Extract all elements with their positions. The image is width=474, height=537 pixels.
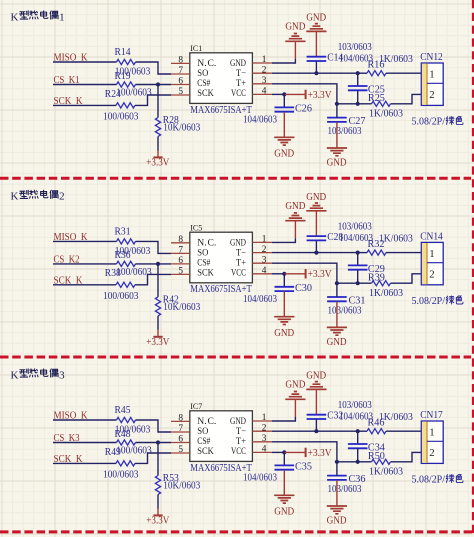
svg-text:+3.3V: +3.3V bbox=[146, 337, 170, 348]
capacitor C26 bbox=[275, 107, 295, 111]
svg-text:IC1: IC1 bbox=[190, 44, 202, 53]
svg-text:1K/0603: 1K/0603 bbox=[369, 467, 403, 478]
wire R45 to IC pin7 bbox=[136, 420, 172, 432]
wire R39 to connector pin2 bbox=[391, 274, 422, 283]
svg-text:5: 5 bbox=[178, 87, 183, 97]
capacitor C27 bbox=[327, 118, 347, 122]
capacitor C29 bbox=[348, 265, 368, 269]
IC IC5 pin 4 stub (VCC) bbox=[252, 273, 272, 275]
svg-text:GND: GND bbox=[327, 337, 347, 348]
svg-text:GND: GND bbox=[306, 370, 326, 381]
svg-text:T+: T+ bbox=[236, 258, 246, 268]
wire pin2 (T-) net bbox=[272, 72, 358, 74]
svg-text:1K/0603: 1K/0603 bbox=[369, 288, 403, 299]
ground stub to C32 top bbox=[315, 389, 317, 414]
svg-text:1: 1 bbox=[429, 248, 434, 260]
svg-text:R48: R48 bbox=[115, 429, 131, 440]
svg-text:CN17: CN17 bbox=[420, 410, 443, 421]
svg-text:1: 1 bbox=[429, 69, 434, 81]
ground symbol (pin1 net) bbox=[285, 34, 305, 42]
svg-text:R19: R19 bbox=[115, 71, 131, 82]
junction pin2 net / C29 bbox=[356, 251, 360, 255]
section separator dashed line 1 bbox=[0, 177, 471, 180]
svg-text:100/0603: 100/0603 bbox=[116, 87, 152, 98]
resistor R50 bbox=[372, 459, 391, 464]
svg-text:3: 3 bbox=[262, 255, 267, 265]
svg-text:4: 4 bbox=[262, 87, 267, 97]
wire VCC junction down to C30 bbox=[283, 274, 285, 287]
svg-text:1K/0603: 1K/0603 bbox=[379, 412, 413, 423]
IC IC7 pin 5 stub (SCK) bbox=[171, 452, 190, 454]
capacitor C31 bbox=[327, 297, 347, 301]
svg-text:SCK: SCK bbox=[197, 89, 214, 99]
svg-text:3: 3 bbox=[59, 369, 65, 381]
svg-text:GND: GND bbox=[327, 157, 347, 168]
svg-text:SCK: SCK bbox=[197, 269, 214, 279]
section title K型热电偶3 bbox=[11, 369, 66, 381]
svg-text:3: 3 bbox=[262, 434, 267, 444]
IC IC7 pin 8 stub (N.C.) bbox=[171, 420, 190, 422]
ground symbol below C27 bbox=[327, 148, 347, 156]
junction C34 bottom bbox=[356, 460, 360, 464]
connector CN14 value 5.08/2P/绿色 bbox=[412, 296, 463, 307]
wire R-row horizontal bbox=[337, 103, 372, 105]
svg-text:GND: GND bbox=[274, 148, 294, 159]
svg-text:3: 3 bbox=[262, 76, 267, 86]
svg-text:2: 2 bbox=[262, 423, 267, 433]
svg-text:T+: T+ bbox=[236, 79, 246, 89]
ground symbol below C30 bbox=[274, 317, 294, 325]
wire to resistor R46 bbox=[358, 430, 367, 432]
capacitor C28 bbox=[307, 236, 327, 240]
junction C29 bottom bbox=[356, 281, 360, 285]
junction C25 bottom bbox=[356, 102, 360, 106]
wire to resistor R16 bbox=[358, 72, 367, 74]
ground symbol (C28 top) bbox=[306, 203, 326, 211]
wire pin1 to ground bbox=[272, 238, 296, 242]
wire MISO to RR14 bbox=[53, 61, 117, 63]
right dashed border bbox=[472, 0, 474, 537]
svg-text:2: 2 bbox=[262, 245, 267, 255]
wire C32 bottom to pin2 net bbox=[315, 419, 317, 431]
ground symbol below C35 bbox=[274, 495, 294, 503]
svg-text:103/0603: 103/0603 bbox=[338, 400, 372, 411]
wire R53 to +3.3V bbox=[157, 495, 159, 509]
IC IC7 pin 1 stub (GND) bbox=[252, 420, 272, 422]
wire pin2 junction down to C25 bbox=[357, 73, 359, 86]
wire pin2 (T-) net bbox=[272, 252, 358, 254]
section separator dashed line 2 bbox=[0, 356, 471, 359]
wire SCK to RR24 bbox=[53, 104, 116, 106]
power +3.3V stub (VCC) bbox=[284, 273, 305, 275]
wire R42 to +3.3V bbox=[157, 316, 159, 330]
svg-text:100/0603: 100/0603 bbox=[116, 267, 152, 278]
bottom dashed border bbox=[0, 530, 474, 533]
resistor R45 bbox=[117, 417, 136, 422]
svg-text:C35: C35 bbox=[295, 462, 312, 473]
svg-text:8: 8 bbox=[178, 235, 183, 245]
IC IC1 pin 7 stub (SO) bbox=[171, 73, 190, 75]
svg-text:SCK: SCK bbox=[197, 447, 214, 457]
IC IC1 pin 5 stub (SCK) bbox=[171, 94, 190, 96]
junction on CS net bbox=[156, 440, 160, 444]
power +3.3V stub (VCC) bbox=[284, 451, 305, 453]
IC IC7 pin 3 stub (T+) bbox=[252, 441, 272, 443]
svg-text:5: 5 bbox=[178, 445, 183, 455]
IC IC1 pin 2 stub (T-) bbox=[252, 72, 272, 74]
ground stub below C36 bbox=[336, 480, 338, 506]
resistor R28 pullup bbox=[155, 118, 160, 137]
capacitor C36 bbox=[327, 476, 347, 480]
ground stub below C30 bbox=[283, 291, 285, 316]
svg-text:1: 1 bbox=[262, 413, 267, 423]
wire CS to IC pin6 bbox=[136, 442, 172, 444]
wire R-row horizontal bbox=[337, 461, 372, 463]
svg-text:CS#: CS# bbox=[197, 437, 210, 447]
junction on CS net bbox=[156, 262, 160, 266]
svg-text:100/0603: 100/0603 bbox=[103, 291, 139, 302]
svg-text:CN14: CN14 bbox=[420, 232, 443, 243]
svg-text:T+: T+ bbox=[236, 437, 246, 447]
junction VCC net bbox=[282, 272, 286, 276]
IC IC5 body MAX6675ISA+T bbox=[190, 232, 253, 283]
svg-text:1: 1 bbox=[262, 235, 267, 245]
wire VCC junction down to C26 bbox=[283, 94, 285, 107]
junction pin2 net / C25 bbox=[356, 71, 360, 75]
resistor R48 bbox=[117, 440, 136, 445]
svg-text:IC5: IC5 bbox=[190, 224, 202, 233]
connector CN17 cell divider bbox=[427, 440, 443, 442]
connector CN12 cell divider bbox=[427, 82, 443, 84]
svg-text:103/0603: 103/0603 bbox=[328, 484, 362, 495]
svg-text:104/0603: 104/0603 bbox=[243, 114, 277, 125]
wire SCK to IC pin5 bbox=[135, 274, 171, 284]
resistor R19 bbox=[117, 82, 136, 87]
junction C28 / pin2 net bbox=[314, 251, 318, 255]
wire C28 bottom to pin2 net bbox=[315, 241, 317, 253]
wire pin3 (T+) net with jog down bbox=[272, 442, 337, 462]
resistor R46 bbox=[367, 429, 386, 434]
svg-text:10K/0603: 10K/0603 bbox=[163, 481, 200, 492]
svg-text:2: 2 bbox=[429, 89, 434, 101]
svg-text:8: 8 bbox=[178, 413, 183, 423]
svg-text:+3.3V: +3.3V bbox=[308, 448, 333, 459]
svg-text:N. C.: N. C. bbox=[197, 417, 216, 427]
junction C32 / pin2 net bbox=[314, 429, 318, 433]
svg-text:4: 4 bbox=[262, 445, 267, 455]
capacitor C14 bbox=[307, 57, 327, 61]
ground stub (pin1 net) bbox=[294, 221, 296, 239]
wire pin4 (VCC) net bbox=[272, 451, 284, 453]
resistor R24 bbox=[116, 103, 135, 108]
svg-text:7: 7 bbox=[178, 245, 183, 255]
svg-text:T−: T− bbox=[236, 248, 246, 258]
IC IC7 pin 7 stub (SO) bbox=[171, 431, 190, 433]
svg-text:N. C.: N. C. bbox=[197, 238, 216, 248]
wire R14 to IC pin7 bbox=[136, 62, 172, 74]
svg-text:R14: R14 bbox=[115, 47, 131, 58]
svg-text:K: K bbox=[11, 369, 19, 381]
ground stub below C27 bbox=[336, 122, 338, 148]
svg-text:103/0603: 103/0603 bbox=[328, 306, 362, 317]
svg-text:1: 1 bbox=[59, 11, 65, 23]
wire SCK to RR49 bbox=[53, 462, 116, 464]
resistor R25 bbox=[372, 101, 391, 106]
wire pin4 (VCC) net bbox=[272, 273, 284, 275]
wire CS junction down to R28 bbox=[157, 85, 159, 118]
resistor R53 pullup bbox=[155, 476, 160, 495]
resistor R38 bbox=[116, 282, 135, 287]
power +3.3V stub (VCC) bbox=[284, 93, 305, 95]
svg-text:CN12: CN12 bbox=[420, 52, 443, 63]
svg-text:103/0603: 103/0603 bbox=[338, 42, 372, 53]
capacitor C34 bbox=[348, 444, 368, 448]
svg-text:R24: R24 bbox=[105, 89, 121, 100]
svg-text:103/0603: 103/0603 bbox=[338, 222, 372, 233]
ground stub (pin1 net) bbox=[294, 399, 296, 417]
wire pin2 junction down to C34 bbox=[357, 431, 359, 444]
wire R46 to connector pin1 bbox=[386, 430, 421, 432]
junction pin3 net / C36 bbox=[335, 460, 339, 464]
wire to resistor R32 bbox=[358, 252, 367, 254]
wire pin3 (T+) net with jog down bbox=[272, 84, 337, 104]
ground stub (pin1 net) bbox=[294, 41, 296, 59]
svg-text:R50: R50 bbox=[368, 451, 385, 462]
IC IC5 pin 8 stub (N.C.) bbox=[171, 242, 190, 244]
IC IC5 pin 7 stub (SO) bbox=[171, 252, 190, 254]
svg-text:5: 5 bbox=[178, 266, 183, 276]
svg-text:SO: SO bbox=[197, 248, 208, 258]
connector CN17 value 5.08/2P/绿色 bbox=[412, 475, 463, 486]
svg-text:CS#: CS# bbox=[197, 258, 210, 268]
IC IC1 pin 8 stub (N.C.) bbox=[171, 62, 190, 64]
svg-text:+3.3V: +3.3V bbox=[308, 269, 333, 280]
wire C29 bottom to R-row bbox=[357, 270, 359, 283]
svg-text:VCC: VCC bbox=[231, 447, 246, 457]
svg-text:K: K bbox=[11, 11, 19, 23]
wire R-row horizontal bbox=[337, 282, 372, 284]
IC IC7 pin 4 stub (VCC) bbox=[252, 451, 272, 453]
IC IC5 pin 6 stub (CS#) bbox=[171, 263, 190, 265]
svg-text:R39: R39 bbox=[368, 272, 385, 283]
power +3.3V bar (VCC) bbox=[305, 90, 307, 99]
IC IC1 pin 4 stub (VCC) bbox=[252, 93, 272, 95]
wire pin3 (T+) net with jog down bbox=[272, 263, 337, 283]
wire pin2 junction down to C29 bbox=[357, 253, 359, 266]
resistor R32 bbox=[367, 250, 386, 255]
capacitor C35 bbox=[275, 465, 295, 469]
wire SCK to RR38 bbox=[53, 284, 116, 286]
svg-text:104/0603: 104/0603 bbox=[243, 294, 277, 305]
svg-text:GND: GND bbox=[274, 506, 294, 517]
svg-text:SO: SO bbox=[197, 69, 208, 79]
ground symbol below C36 bbox=[327, 506, 347, 514]
IC IC7 pin 2 stub (T-) bbox=[252, 430, 272, 432]
wire pin2 (T-) net bbox=[272, 430, 358, 432]
svg-text:1K/0603: 1K/0603 bbox=[379, 54, 413, 65]
svg-text:GND: GND bbox=[230, 59, 246, 69]
wire R25 to connector pin2 bbox=[391, 94, 422, 103]
svg-text:100/0603: 100/0603 bbox=[103, 470, 139, 481]
ground stub below C35 bbox=[283, 470, 285, 495]
svg-text:K: K bbox=[11, 191, 19, 203]
IC IC7 pin 6 stub (CS#) bbox=[171, 442, 190, 444]
svg-text:10K/0603: 10K/0603 bbox=[163, 302, 200, 313]
svg-text:4: 4 bbox=[262, 266, 267, 276]
svg-text:R38: R38 bbox=[105, 268, 121, 279]
svg-text:VCC: VCC bbox=[231, 269, 246, 279]
junction VCC net bbox=[282, 92, 286, 96]
connector CN14 body bbox=[421, 242, 443, 284]
resistor R14 bbox=[117, 59, 136, 64]
wire R50 to connector pin2 bbox=[391, 452, 422, 461]
svg-text:CS#: CS# bbox=[197, 79, 210, 89]
svg-text:GND: GND bbox=[306, 12, 326, 23]
svg-text:5.08/2P/: 5.08/2P/ bbox=[412, 296, 446, 307]
svg-text:7: 7 bbox=[178, 66, 183, 76]
wire CS to RR48 bbox=[53, 442, 117, 444]
ground stub to C14 top bbox=[315, 31, 317, 56]
IC IC1 pin 3 stub (T+) bbox=[252, 83, 272, 85]
wire VCC junction down to C35 bbox=[283, 452, 285, 465]
junction pin3 net / C31 bbox=[335, 281, 339, 285]
svg-text:2: 2 bbox=[59, 191, 65, 203]
svg-text:2: 2 bbox=[429, 447, 434, 459]
svg-text:GND: GND bbox=[285, 379, 305, 390]
power +3.3V bar symbol bbox=[153, 336, 162, 338]
ground stub to C28 top bbox=[315, 211, 317, 236]
svg-text:6: 6 bbox=[178, 77, 183, 87]
resistor R16 bbox=[367, 71, 386, 76]
IC IC5 pin 5 stub (SCK) bbox=[171, 273, 190, 275]
svg-text:100/0603: 100/0603 bbox=[116, 445, 152, 456]
svg-text:R31: R31 bbox=[115, 226, 131, 237]
wire pin1 to ground bbox=[272, 59, 296, 63]
section title K型热电偶1 bbox=[11, 11, 65, 23]
svg-text:5.08/2P/: 5.08/2P/ bbox=[412, 475, 446, 486]
wire pin3 junction to C27 top bbox=[336, 104, 338, 118]
resistor R39 bbox=[372, 281, 391, 286]
svg-text:VCC: VCC bbox=[231, 89, 246, 99]
wire C34 bottom to R-row bbox=[357, 449, 359, 462]
connector CN12 value 5.08/2P/绿色 bbox=[412, 117, 463, 128]
wire pin1 to ground bbox=[272, 417, 296, 421]
ground symbol (C14 top) bbox=[306, 24, 326, 32]
resistor R36 bbox=[117, 261, 136, 266]
IC IC5 pin 3 stub (T+) bbox=[252, 262, 272, 264]
svg-text:GND: GND bbox=[306, 192, 326, 203]
svg-text:2: 2 bbox=[429, 268, 434, 280]
IC IC1 pin 6 stub (CS#) bbox=[171, 84, 190, 86]
wire MISO to RR31 bbox=[53, 240, 117, 242]
IC IC7 body MAX6675ISA+T bbox=[190, 411, 253, 462]
svg-text:C26: C26 bbox=[295, 104, 312, 115]
resistor R49 bbox=[116, 461, 135, 466]
svg-text:GND: GND bbox=[285, 201, 305, 212]
svg-text:SO: SO bbox=[197, 427, 208, 437]
capacitor C30 bbox=[275, 287, 295, 291]
svg-text:+3.3V: +3.3V bbox=[146, 515, 170, 526]
svg-text:R45: R45 bbox=[115, 405, 131, 416]
svg-text:R36: R36 bbox=[115, 250, 131, 261]
wire C25 bottom to R-row bbox=[357, 91, 359, 104]
svg-text:1K/0603: 1K/0603 bbox=[369, 109, 403, 120]
wire pin3 junction to C36 top bbox=[336, 462, 338, 476]
power +3.3V bar symbol bbox=[153, 514, 162, 516]
svg-text:T−: T− bbox=[236, 69, 246, 79]
IC IC5 pin 2 stub (T-) bbox=[252, 252, 272, 254]
wire SCK to IC pin5 bbox=[135, 453, 171, 463]
ground symbol below C31 bbox=[327, 327, 347, 335]
resistor R31 bbox=[117, 239, 136, 244]
wire CS junction down to R42 bbox=[157, 264, 159, 297]
svg-text:IC7: IC7 bbox=[190, 402, 202, 411]
power +3.3V bar (VCC) bbox=[305, 448, 307, 457]
power +3.3V bar symbol bbox=[153, 156, 162, 158]
connector CN12 body bbox=[421, 63, 443, 105]
IC IC5 pin 1 stub (GND) bbox=[252, 241, 272, 243]
power +3.3V stub bbox=[157, 509, 159, 516]
wire MISO to RR45 bbox=[53, 419, 117, 421]
svg-text:GND: GND bbox=[285, 21, 305, 32]
svg-text:N. C.: N. C. bbox=[197, 59, 216, 69]
junction pin2 net / C34 bbox=[356, 429, 360, 433]
svg-text:1: 1 bbox=[262, 55, 267, 65]
svg-text:+3.3V: +3.3V bbox=[146, 157, 170, 168]
wire CS to RR19 bbox=[53, 84, 117, 86]
ground symbol (pin1 net) bbox=[285, 213, 305, 221]
wire CS to IC pin6 bbox=[136, 263, 172, 265]
svg-text:6: 6 bbox=[178, 256, 183, 266]
ground symbol (pin1 net) bbox=[285, 392, 305, 400]
power +3.3V bar (VCC) bbox=[305, 269, 307, 278]
svg-text:R49: R49 bbox=[105, 447, 121, 458]
ground symbol (C32 top) bbox=[306, 382, 326, 390]
svg-text:100/0603: 100/0603 bbox=[103, 112, 139, 123]
svg-text:+3.3V: +3.3V bbox=[308, 90, 333, 101]
svg-text:GND: GND bbox=[327, 515, 347, 526]
wire R31 to IC pin7 bbox=[136, 241, 172, 253]
svg-text:7: 7 bbox=[178, 424, 183, 434]
junction C14 / pin2 net bbox=[314, 71, 318, 75]
wire R32 to connector pin1 bbox=[386, 252, 421, 254]
junction pin3 net / C27 bbox=[335, 102, 339, 106]
wire CS to IC pin6 bbox=[136, 84, 172, 86]
junction VCC net bbox=[282, 450, 286, 454]
svg-text:GND: GND bbox=[230, 417, 246, 427]
ground symbol below C26 bbox=[274, 137, 294, 145]
capacitor C25 bbox=[348, 86, 368, 90]
resistor R42 pullup bbox=[155, 297, 160, 316]
wire C14 bottom to pin2 net bbox=[315, 61, 317, 73]
svg-text:T−: T− bbox=[236, 427, 246, 437]
svg-text:103/0603: 103/0603 bbox=[328, 126, 362, 137]
wire pin4 (VCC) net bbox=[272, 93, 284, 95]
wire R28 to +3.3V bbox=[157, 137, 159, 151]
wire SCK to IC pin5 bbox=[135, 95, 171, 105]
svg-text:5.08/2P/: 5.08/2P/ bbox=[412, 117, 446, 128]
section title K型热电偶2 bbox=[11, 190, 65, 202]
svg-text:10K/0603: 10K/0603 bbox=[163, 123, 200, 134]
wire CS junction down to R53 bbox=[157, 443, 159, 476]
svg-text:GND: GND bbox=[274, 328, 294, 339]
wire R16 to connector pin1 bbox=[386, 72, 421, 74]
svg-text:1K/0603: 1K/0603 bbox=[379, 234, 413, 245]
wire CS to RR36 bbox=[53, 263, 117, 265]
capacitor C32 bbox=[307, 415, 327, 419]
ground stub below C26 bbox=[283, 112, 285, 137]
ground stub below C31 bbox=[336, 302, 338, 328]
